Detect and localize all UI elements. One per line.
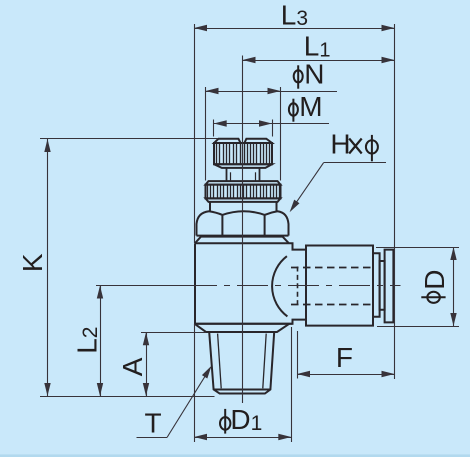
hex nut bottom line	[197, 235, 289, 237]
dimension F line	[297, 371, 395, 377]
label F	[336, 342, 353, 373]
knob slot gap lines	[241, 143, 245, 164]
thread outline	[209, 332, 274, 394]
svg-text:N: N	[304, 58, 324, 89]
svg-text:D: D	[419, 270, 450, 290]
svg-text:M: M	[299, 91, 322, 122]
lock ring knurled band outline	[206, 185, 281, 199]
lock ring top bevel	[206, 181, 281, 185]
dimension phiD line	[450, 247, 456, 326]
svg-text:H: H	[330, 129, 350, 160]
dimension phiN extension lines	[206, 87, 281, 181]
body outline	[195, 243, 306, 324]
svg-text:K: K	[17, 253, 48, 272]
washer	[210, 202, 277, 211]
dimension A line	[143, 332, 149, 396]
label L1	[304, 31, 331, 62]
dimension L2 reference line	[96, 285, 186, 287]
svg-text:T: T	[145, 408, 162, 439]
dimension F extension line	[297, 331, 299, 379]
collar ring	[373, 253, 380, 316]
lock ring knurl hatching	[208, 185, 280, 198]
vertical centerline	[242, 56, 244, 404]
label L2	[71, 327, 102, 354]
dimension phiD reference lines	[376, 248, 459, 327]
knob knurl hatching	[217, 144, 270, 164]
inner ring	[380, 261, 385, 310]
label phiD1	[220, 404, 262, 435]
dimension phiD1 extension left	[194, 324, 196, 442]
dimension L3 line	[194, 25, 395, 31]
adjustment knob knurled band outline	[214, 143, 272, 164]
dimension K reference line top	[40, 138, 218, 140]
label phiN	[294, 58, 325, 89]
adjustment knob top cap (left half)	[214, 139, 241, 143]
port cylinder	[306, 246, 373, 326]
label phiM	[289, 91, 323, 122]
dimension A reference line	[141, 332, 206, 334]
body bottom chamfer	[194, 324, 289, 332]
knob bottom bevel	[214, 164, 272, 168]
dimension phiN line	[206, 88, 338, 94]
body shoulder	[195, 237, 289, 244]
svg-text:F: F	[336, 342, 353, 373]
hex nut outline	[197, 211, 289, 235]
dimension phiD1 extension right	[291, 327, 293, 442]
body-port blend arc	[272, 256, 287, 316]
bottom edge strip	[0, 454, 470, 457]
dimension phiD1 line	[194, 434, 291, 440]
label T	[145, 408, 162, 439]
leader T	[137, 366, 212, 438]
dimension phiM extension lines	[214, 120, 273, 137]
adjustment knob top cap (right half)	[244, 139, 272, 143]
dimension phiM line	[214, 120, 329, 126]
horizontal centerline	[96, 285, 401, 287]
release button	[385, 250, 394, 323]
label K	[17, 253, 48, 272]
dimension K line	[44, 139, 50, 396]
label phiD	[419, 270, 450, 303]
leader H-x-phi	[290, 163, 386, 213]
dimension L3 extension line left	[194, 24, 196, 243]
port bore hidden lines	[291, 267, 373, 306]
lock ring bottom bevel	[206, 198, 281, 202]
label L3	[281, 0, 308, 30]
stem	[227, 168, 260, 181]
dimension L1 line	[243, 57, 395, 63]
label H-x-phi	[330, 129, 378, 162]
svg-text:A: A	[117, 357, 148, 376]
dimension L2 line	[97, 286, 103, 397]
thread crest lines	[218, 334, 267, 389]
label A	[117, 357, 148, 376]
dimension L3 extension line right	[394, 24, 396, 379]
dimension K reference line bottom	[40, 396, 215, 398]
